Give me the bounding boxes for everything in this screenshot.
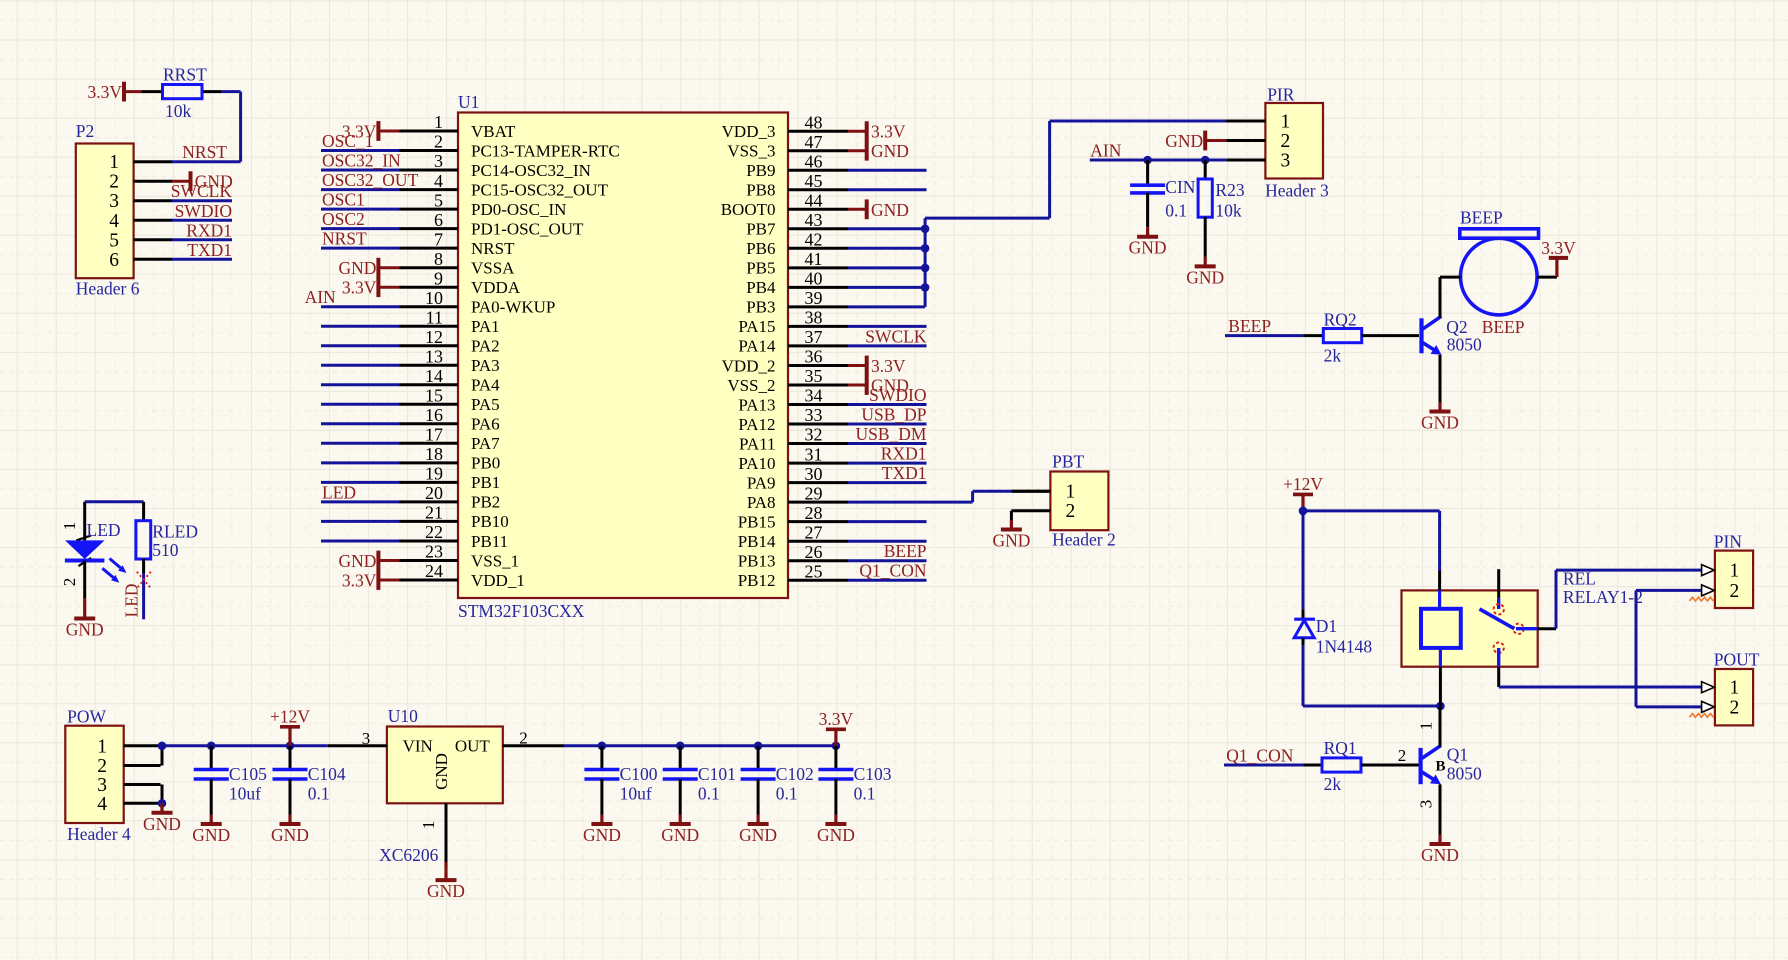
svg-text:PA12: PA12 (738, 415, 775, 434)
net label TXD1 (172, 240, 232, 260)
svg-text:PB6: PB6 (746, 239, 775, 258)
power port 3.3V (342, 570, 379, 590)
svg-text:VSSA: VSSA (471, 259, 515, 278)
svg-text:PA5: PA5 (471, 395, 500, 414)
svg-text:28: 28 (805, 503, 823, 523)
svg-text:43: 43 (805, 210, 823, 230)
svg-text:2: 2 (60, 578, 79, 587)
svg-text:U10: U10 (388, 706, 418, 726)
svg-text:1: 1 (419, 821, 438, 830)
svg-text:1: 1 (109, 152, 119, 173)
power port +12V (1283, 474, 1323, 511)
junction dots on bus (921, 225, 930, 292)
U1 pin 29 PA8 (747, 483, 848, 512)
U1 pin 16 PA6 (321, 405, 500, 434)
U1 pin 12 PA2 (321, 327, 500, 356)
svg-text:SWDIO: SWDIO (175, 201, 232, 221)
svg-text:USB_DM: USB_DM (856, 424, 927, 444)
U1 pin 28 PB15 (738, 503, 927, 532)
svg-text:D1: D1 (1316, 616, 1337, 636)
U1 pin 22 PB11 (321, 522, 508, 551)
U1 pin 8 VSSA (378, 249, 515, 278)
svg-text:BEEP: BEEP (884, 541, 927, 561)
svg-text:RXD1: RXD1 (186, 220, 232, 240)
power port 3.3V (342, 277, 379, 297)
U1 pin 44 BOOT0 (721, 191, 867, 220)
svg-text:GND: GND (427, 881, 465, 901)
svg-text:VIN: VIN (403, 737, 433, 756)
capacitor C102 0.1 (741, 746, 814, 815)
ground (143, 803, 181, 834)
U1 pin 26 PB13 (738, 542, 927, 571)
microcontroller U1 STM32F103CXX (458, 92, 788, 621)
svg-text:0.1: 0.1 (1165, 200, 1187, 220)
U1 pin 47 VSS_3 (727, 132, 866, 161)
U1 pin 14 PA4 (321, 366, 500, 395)
svg-text:OSC_1: OSC_1 (322, 131, 374, 151)
resistor RQ1 2k (1303, 738, 1418, 794)
svg-text:2: 2 (1730, 581, 1740, 602)
svg-text:6: 6 (434, 210, 443, 230)
U1 pin 37 PA14 (738, 327, 926, 356)
wire PA8 to PBT (848, 491, 1050, 502)
svg-text:PB3: PB3 (746, 298, 775, 317)
ground (271, 815, 309, 846)
svg-text:1: 1 (60, 522, 79, 531)
svg-text:OSC2: OSC2 (322, 209, 365, 229)
svg-text:15: 15 (425, 386, 443, 406)
svg-text:VSS_1: VSS_1 (471, 551, 519, 570)
svg-text:PB13: PB13 (738, 552, 776, 571)
svg-text:PA13: PA13 (738, 395, 775, 414)
U1 pin 4 PC15-OSC32_OUT (321, 171, 609, 200)
svg-text:2k: 2k (1324, 346, 1342, 366)
svg-text:P2: P2 (76, 121, 94, 141)
power port 3.3V (342, 121, 379, 141)
relay coil (1421, 571, 1461, 706)
wire NRST net (172, 92, 241, 162)
svg-text:8050: 8050 (1447, 764, 1482, 784)
svg-text:4: 4 (109, 211, 119, 232)
P2 pin2 ground wire (172, 180, 191, 183)
power port 3.3V at RRST (124, 90, 141, 93)
U1 pin 23 VSS_1 (378, 542, 519, 571)
power port GND (1165, 131, 1205, 151)
svg-text:TXD1: TXD1 (187, 240, 232, 260)
svg-text:10k: 10k (1215, 200, 1242, 220)
svg-text:0.1: 0.1 (854, 784, 876, 804)
svg-text:3.3V: 3.3V (342, 571, 377, 591)
svg-text:VDDA: VDDA (471, 278, 521, 297)
buzzer BEEP (1440, 208, 1557, 315)
svg-text:GND: GND (338, 258, 376, 278)
svg-text:PA10: PA10 (738, 454, 775, 473)
POW pin 3 (97, 775, 160, 796)
svg-text:10uf: 10uf (229, 784, 261, 804)
svg-text:GND: GND (871, 141, 909, 161)
svg-text:3.3V: 3.3V (87, 82, 122, 102)
svg-text:10: 10 (425, 288, 443, 308)
svg-text:USB_DP: USB_DP (861, 405, 926, 425)
U1 pin 33 PA12 (738, 405, 926, 434)
svg-text:24: 24 (425, 561, 443, 581)
power port GND (867, 375, 909, 395)
LED D-LED (60, 502, 127, 609)
ground (192, 815, 230, 846)
svg-text:PA2: PA2 (471, 337, 500, 356)
svg-text:PC14-OSC32_IN: PC14-OSC32_IN (471, 161, 591, 180)
svg-text:36: 36 (805, 347, 823, 367)
ground (427, 871, 465, 902)
U1 pin 20 PB2 (321, 483, 500, 512)
PIR pin 3 (1226, 151, 1290, 172)
svg-text:10k: 10k (165, 101, 192, 121)
svg-text:1: 1 (1281, 112, 1291, 133)
U1 pin 42 PB6 (746, 230, 925, 259)
ground (1186, 257, 1224, 288)
svg-text:OSC32_IN: OSC32_IN (322, 151, 401, 171)
svg-text:45: 45 (805, 171, 823, 191)
svg-text:GND: GND (583, 825, 621, 845)
svg-text:VSS_3: VSS_3 (727, 142, 775, 161)
svg-text:1: 1 (97, 736, 107, 757)
U1 pin 39 PB3 (746, 288, 925, 317)
svg-text:8050: 8050 (1447, 335, 1482, 355)
svg-text:PA11: PA11 (739, 434, 776, 453)
PBT pin2 ground wire (1010, 511, 1013, 520)
svg-text:VDD_1: VDD_1 (471, 571, 525, 590)
svg-text:33: 33 (805, 405, 823, 425)
U1 pin 9 VDDA (378, 268, 520, 297)
svg-text:PB12: PB12 (738, 571, 776, 590)
svg-text:2: 2 (1066, 501, 1076, 522)
POUT pin 2 (1702, 697, 1740, 718)
svg-text:3.3V: 3.3V (871, 122, 906, 142)
svg-text:GND: GND (432, 753, 451, 790)
svg-text:BEEP: BEEP (1482, 317, 1525, 337)
svg-text:PC15-OSC32_OUT: PC15-OSC32_OUT (471, 180, 609, 199)
svg-text:Header 3: Header 3 (1265, 181, 1329, 201)
transistor Q1 8050 (1398, 706, 1482, 835)
svg-text:GND: GND (1165, 131, 1203, 151)
svg-text:TXD1: TXD1 (882, 463, 927, 483)
svg-text:0.1: 0.1 (776, 784, 798, 804)
svg-text:PD0-OSC_IN: PD0-OSC_IN (471, 200, 566, 219)
PIR pin2 ground (1205, 139, 1226, 142)
svg-text:38: 38 (805, 308, 823, 328)
svg-text:30: 30 (805, 464, 823, 484)
svg-text:3: 3 (1281, 151, 1291, 172)
svg-text:PB0: PB0 (471, 454, 500, 473)
power port GND (338, 551, 378, 571)
U1 pin 18 PB0 (321, 444, 500, 473)
U1 pin 21 PB10 (321, 503, 509, 532)
U1 pin 13 PA3 (321, 347, 500, 376)
svg-text:20: 20 (425, 483, 443, 503)
svg-text:PB15: PB15 (738, 512, 776, 531)
svg-text:Q1_CON: Q1_CON (1226, 746, 1293, 766)
power port 3.3V (867, 121, 906, 141)
P2 pin 2 (109, 172, 172, 193)
svg-text:LED: LED (322, 482, 356, 502)
POW pin 1 (97, 736, 160, 757)
svg-text:PA3: PA3 (471, 356, 500, 375)
U1 pin 7 NRST (321, 229, 515, 258)
svg-text:16: 16 (425, 405, 443, 425)
ground (1421, 835, 1459, 866)
svg-text:PB4: PB4 (746, 278, 776, 297)
svg-text:32: 32 (805, 425, 823, 445)
net label SWDIO (172, 201, 232, 221)
svg-text:46: 46 (805, 151, 823, 171)
svg-text:1: 1 (1730, 678, 1740, 699)
connector POW Header 4 (65, 707, 131, 845)
no-ERC zigzag PIN2 (1689, 597, 1713, 601)
svg-text:RQ1: RQ1 (1324, 738, 1357, 758)
svg-text:RRST: RRST (163, 65, 207, 85)
ground (739, 815, 777, 846)
svg-text:40: 40 (805, 269, 823, 289)
svg-text:PB2: PB2 (471, 493, 500, 512)
resistor RRST 10k (141, 65, 222, 122)
svg-text:Q1: Q1 (1447, 745, 1468, 765)
svg-text:510: 510 (152, 540, 179, 560)
svg-text:POW: POW (67, 707, 106, 727)
net label BEEP (1225, 316, 1303, 336)
power port GND (191, 171, 233, 191)
svg-text:8: 8 (434, 249, 443, 269)
svg-text:GND: GND (739, 825, 777, 845)
ground (1129, 227, 1167, 258)
svg-text:RELAY1-2: RELAY1-2 (1563, 587, 1643, 607)
svg-text:29: 29 (805, 483, 823, 503)
P2 pin 6 (109, 250, 172, 271)
svg-text:BEEP: BEEP (1460, 208, 1503, 228)
P2 pin 4 (109, 211, 172, 232)
svg-text:PB8: PB8 (746, 181, 775, 200)
svg-text:27: 27 (805, 522, 823, 542)
svg-text:48: 48 (805, 112, 823, 132)
svg-text:NRST: NRST (471, 239, 515, 258)
regulator U10 XC6206 (379, 706, 503, 865)
power port 3.3V at buzzer (1541, 238, 1576, 277)
svg-text:OSC32_OUT: OSC32_OUT (322, 170, 419, 190)
svg-text:PB7: PB7 (746, 220, 776, 239)
svg-text:VDD_2: VDD_2 (722, 356, 776, 375)
svg-text:1: 1 (1417, 722, 1436, 731)
wire D1 to relay/Q1 junction (1303, 645, 1445, 710)
capacitor C104 0.1 (273, 746, 346, 815)
U1 pin 27 PB14 (738, 522, 927, 551)
U1 pin 15 PA5 (321, 386, 500, 415)
svg-text:C104: C104 (308, 764, 346, 784)
svg-text:PIR: PIR (1267, 85, 1295, 105)
svg-text:PA6: PA6 (471, 415, 500, 434)
svg-text:RLED: RLED (152, 522, 198, 542)
relay switch (1480, 569, 1557, 687)
svg-text:GND: GND (817, 825, 855, 845)
U1 pin 41 PB5 (746, 249, 925, 278)
svg-text:3.3V: 3.3V (1541, 238, 1576, 258)
PBT pin 1 (1011, 482, 1075, 503)
U1 pin 38 PA15 (738, 308, 926, 337)
P2 pin 5 (109, 230, 172, 251)
wire +12V rail (158, 742, 328, 808)
ground (992, 520, 1030, 551)
svg-text:4: 4 (434, 171, 443, 191)
capacitor CIN 0.1 (1130, 160, 1196, 227)
svg-text:STM32F103CXX: STM32F103CXX (458, 601, 585, 621)
svg-text:SWCLK: SWCLK (171, 181, 233, 201)
resistor RQ2 2k (1303, 309, 1419, 365)
POW pin 2 (97, 756, 160, 777)
U1 pin 32 PA11 (739, 425, 927, 454)
svg-text:3: 3 (1417, 800, 1436, 809)
svg-text:2: 2 (434, 132, 443, 152)
diode D1 1N4148 (1294, 609, 1372, 656)
svg-text:GND: GND (1421, 413, 1459, 433)
svg-text:SWCLK: SWCLK (865, 326, 927, 346)
PBT pin 2 (1011, 501, 1075, 522)
svg-text:PA4: PA4 (471, 376, 500, 395)
svg-text:26: 26 (805, 542, 823, 562)
connector P2 Header 6 (76, 121, 140, 299)
no-ERC marker (137, 572, 151, 588)
power port 3.3V (819, 709, 854, 746)
svg-text:C101: C101 (698, 764, 736, 784)
U1 pin 46 PB9 (746, 151, 926, 180)
svg-text:VDD_3: VDD_3 (722, 122, 776, 141)
svg-text:XC6206: XC6206 (379, 845, 439, 865)
svg-text:3.3V: 3.3V (871, 356, 906, 376)
svg-text:GND: GND (661, 825, 699, 845)
svg-text:PA1: PA1 (471, 317, 500, 336)
svg-text:BEEP: BEEP (1228, 316, 1271, 336)
svg-text:22: 22 (425, 522, 443, 542)
PIR pin 2 (1226, 131, 1290, 152)
svg-text:5: 5 (109, 230, 119, 251)
svg-text:2: 2 (97, 756, 107, 777)
transistor Q2 8050 (1422, 277, 1482, 402)
svg-text:NRST: NRST (182, 142, 227, 162)
POUT pin 1 (1702, 678, 1740, 699)
svg-text:37: 37 (805, 327, 823, 347)
svg-text:42: 42 (805, 230, 823, 250)
resistor R23 10k (1198, 160, 1245, 257)
U1 pin 10 PA0-WKUP (321, 288, 555, 317)
wire net LED (142, 573, 145, 619)
svg-text:3: 3 (362, 729, 371, 748)
svg-text:POUT: POUT (1714, 650, 1760, 670)
ground (583, 815, 621, 846)
svg-text:19: 19 (425, 464, 443, 484)
wire 3.3V rail (564, 742, 840, 751)
svg-text:PC13-TAMPER-RTC: PC13-TAMPER-RTC (471, 141, 620, 160)
P2 pin 1 (109, 152, 172, 173)
svg-text:PA14: PA14 (738, 337, 776, 356)
svg-text:GND: GND (143, 814, 181, 834)
svg-text:2: 2 (1398, 746, 1407, 765)
net label SWCLK (171, 181, 233, 201)
U1 pin 3 PC14-OSC32_IN (321, 151, 591, 180)
U1 pin 36 VDD_2 (722, 347, 867, 376)
ground (661, 815, 699, 846)
svg-text:PA15: PA15 (738, 317, 775, 336)
svg-text:Header 6: Header 6 (76, 279, 140, 299)
svg-text:2: 2 (519, 729, 528, 748)
svg-text:GND: GND (871, 200, 909, 220)
U1 pin 30 PA9 (747, 464, 927, 493)
U1 pin 45 PB8 (746, 171, 926, 200)
svg-text:PB10: PB10 (471, 512, 509, 531)
svg-text:23: 23 (425, 542, 443, 562)
svg-text:0.1: 0.1 (698, 784, 720, 804)
svg-text:CIN: CIN (1165, 177, 1196, 197)
svg-text:OUT: OUT (455, 737, 491, 756)
svg-text:RXD1: RXD1 (881, 444, 927, 464)
svg-text:RQ2: RQ2 (1324, 309, 1357, 329)
svg-text:9: 9 (434, 268, 443, 288)
capacitor C101 0.1 (663, 746, 736, 815)
U10 pin 1 (419, 803, 446, 862)
svg-text:41: 41 (805, 249, 823, 269)
svg-text:PB9: PB9 (746, 161, 775, 180)
svg-text:PA9: PA9 (747, 473, 776, 492)
svg-text:3.3V: 3.3V (819, 709, 854, 729)
svg-text:PB5: PB5 (746, 259, 775, 278)
connector PIN (1714, 532, 1753, 609)
resistor RLED 510 (136, 502, 198, 573)
svg-text:1N4148: 1N4148 (1316, 637, 1373, 657)
svg-text:18: 18 (425, 444, 443, 464)
svg-text:2: 2 (109, 172, 119, 193)
U1 pin 19 PB1 (321, 464, 500, 493)
connector PIR Header 3 (1265, 85, 1329, 201)
svg-text:PA7: PA7 (471, 434, 500, 453)
U1 pin 17 PA7 (321, 425, 500, 454)
svg-text:17: 17 (425, 425, 443, 445)
svg-text:34: 34 (805, 386, 823, 406)
net label Q1_CON (1224, 746, 1303, 766)
U1 pin 43 PB7 (746, 210, 925, 239)
svg-text:B: B (1435, 759, 1445, 775)
svg-text:5: 5 (434, 190, 443, 210)
power port GND (867, 199, 909, 219)
svg-text:2: 2 (1281, 131, 1291, 152)
svg-text:7: 7 (434, 229, 443, 249)
svg-text:Q1_CON: Q1_CON (859, 561, 926, 581)
U1 pin 1 VBAT (378, 112, 516, 141)
svg-text:BOOT0: BOOT0 (721, 200, 776, 219)
svg-text:VSS_2: VSS_2 (727, 376, 775, 395)
svg-text:VBAT: VBAT (471, 122, 516, 141)
svg-text:PB14: PB14 (738, 532, 776, 551)
svg-text:0.1: 0.1 (308, 784, 330, 804)
wire LED top (85, 500, 144, 503)
svg-text:GND: GND (1421, 845, 1459, 865)
U10 pin 3 (328, 729, 387, 748)
svg-text:44: 44 (805, 191, 823, 211)
svg-text:12: 12 (425, 327, 443, 347)
svg-text:4: 4 (97, 794, 107, 815)
connector POUT (1714, 650, 1760, 726)
svg-text:AIN: AIN (305, 287, 336, 307)
svg-text:47: 47 (805, 132, 823, 152)
svg-text:3: 3 (109, 191, 119, 212)
svg-text:PB11: PB11 (471, 532, 508, 551)
svg-text:Header 2: Header 2 (1052, 530, 1116, 550)
wire PIN2 to POUT2 (1636, 590, 1702, 707)
